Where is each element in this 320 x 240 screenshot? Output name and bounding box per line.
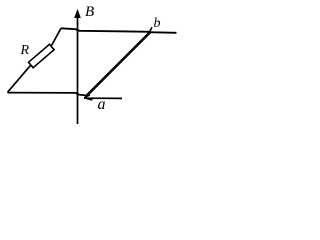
resistor R: [29, 44, 55, 67]
svg-text:B: B: [85, 4, 94, 20]
wire: loop left edge lower segment (BL corner to resistor R): [8, 65, 32, 93]
node a arrowhead tick: [84, 95, 92, 100]
magnetic field arrow B shaft: [77, 12, 79, 124]
wire: lead from node b to right edge: [148, 31, 177, 34]
svg-text:a: a: [98, 96, 106, 113]
svg-text:b: b: [154, 16, 161, 31]
wire: loop left edge upper segment (resistor R to TL corner): [52, 28, 62, 45]
wire: loop top edge (node TL to node b): [61, 28, 151, 32]
wire: lead from node a to the right: [84, 97, 122, 99]
svg-text:R: R: [20, 43, 30, 58]
wire: loop right edge (node b to node a, thick stroke): [86, 32, 151, 97]
magnetic field arrow B head: [74, 9, 81, 18]
node b tick: [149, 27, 152, 32]
wire: loop bottom edge (BL corner to node a): [8, 93, 86, 96]
